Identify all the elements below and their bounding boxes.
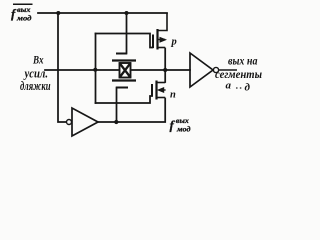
transistor p: source stub and lead to rail (158, 13, 168, 31)
transmission gate S1: X box (120, 63, 131, 78)
op-amp bottom inverter U2 triangle (72, 108, 98, 136)
junction dot on rail at left vertical (56, 11, 60, 15)
wire TG output to inverter input (132, 69, 190, 71)
svg-text:д: д (245, 82, 251, 94)
transistor n: substrate lead with arrow (points toward channel) (159, 89, 166, 91)
svg-text:сегменты: сегменты (215, 67, 262, 81)
transistor n: channel bar (155, 81, 157, 100)
transmission gate S1: lower gate bar (116, 87, 128, 89)
wire TG lower gate to bottom wire (116, 88, 118, 122)
transistor n: gate bar (151, 84, 153, 97)
junction dot drain node (163, 68, 167, 72)
wire input net horizontal (45, 69, 118, 71)
wire p drain down to node (164, 49, 166, 70)
transistor p: channel bar (156, 29, 158, 50)
wire bottom inverter output (98, 99, 165, 123)
wire inverter U1 output (219, 69, 237, 71)
node fmod-bar top rail (38, 12, 167, 14)
transistor p: gate bar (152, 35, 154, 49)
svg-text:вых: вых (176, 116, 189, 125)
label output line3: dots (236, 87, 238, 89)
transistor p: substrate lead with arrow (points away from channel) (159, 39, 166, 41)
wire gate net upper horizontal to p gate (96, 34, 153, 48)
op-amp output inverter U1 triangle (190, 53, 213, 87)
svg-text:Вх: Вх (32, 55, 43, 67)
transmission gate S1: upper gate bar (116, 53, 127, 55)
junction dot bottom wire to TG lower gate (114, 120, 118, 124)
svg-text:вых на: вых на (228, 54, 258, 68)
transistor p: drain stub (158, 47, 166, 49)
label fmod-bar top-left: overline (13, 3, 33, 5)
wire gate net lower horizontal to n gate (96, 96, 153, 103)
wire top rail vertical to TG upper gate (126, 13, 128, 54)
svg-text:f: f (170, 118, 176, 133)
svg-text:n: n (170, 89, 176, 100)
junction dot on rail at TG gate vertical (125, 11, 129, 15)
svg-text:p: p (171, 37, 177, 48)
svg-text:мод: мод (16, 14, 32, 23)
inverter U1 output bubble (213, 67, 218, 72)
transistor n: drain stub (157, 82, 165, 84)
wire n drain up to node (164, 71, 166, 82)
svg-text:мод: мод (176, 125, 191, 134)
svg-text:дляжки: дляжки (20, 79, 51, 93)
transmission gate S1: lower channel bar (112, 79, 136, 81)
transistor n: source stub (157, 97, 165, 99)
svg-text:а: а (226, 80, 232, 92)
inverter U2 input bubble (67, 120, 72, 125)
wire gate net vertical (95, 34, 97, 104)
wire left vertical from top rail to bottom inverter input (58, 13, 66, 122)
transmission gate S1: upper channel bar (112, 59, 136, 61)
junction dot input net to gate net (93, 68, 97, 72)
